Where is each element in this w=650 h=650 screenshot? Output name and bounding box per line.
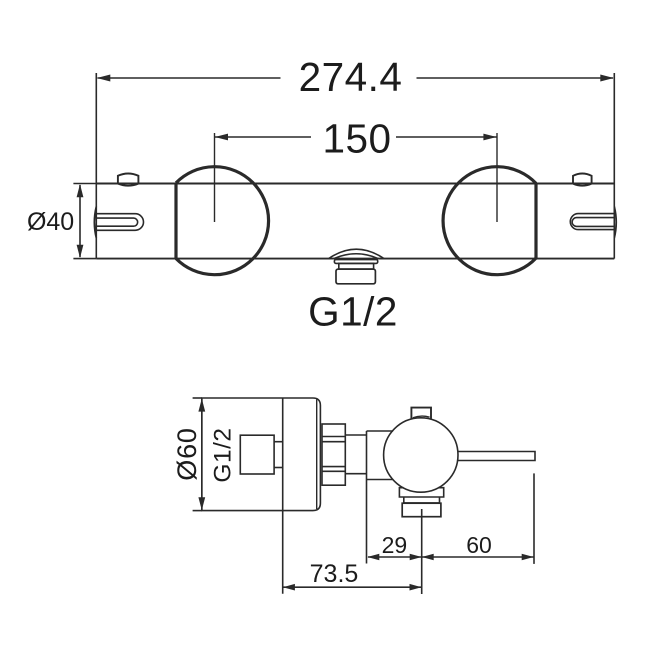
svg-text:Ø40: Ø40 bbox=[27, 208, 74, 236]
svg-text:29: 29 bbox=[382, 532, 408, 558]
svg-text:G1/2: G1/2 bbox=[210, 427, 237, 482]
svg-text:150: 150 bbox=[322, 115, 391, 161]
svg-text:60: 60 bbox=[466, 532, 492, 558]
svg-text:Ø60: Ø60 bbox=[172, 427, 202, 480]
svg-text:G1/2: G1/2 bbox=[308, 289, 398, 335]
svg-text:274.4: 274.4 bbox=[299, 54, 403, 100]
svg-text:73.5: 73.5 bbox=[310, 560, 359, 588]
